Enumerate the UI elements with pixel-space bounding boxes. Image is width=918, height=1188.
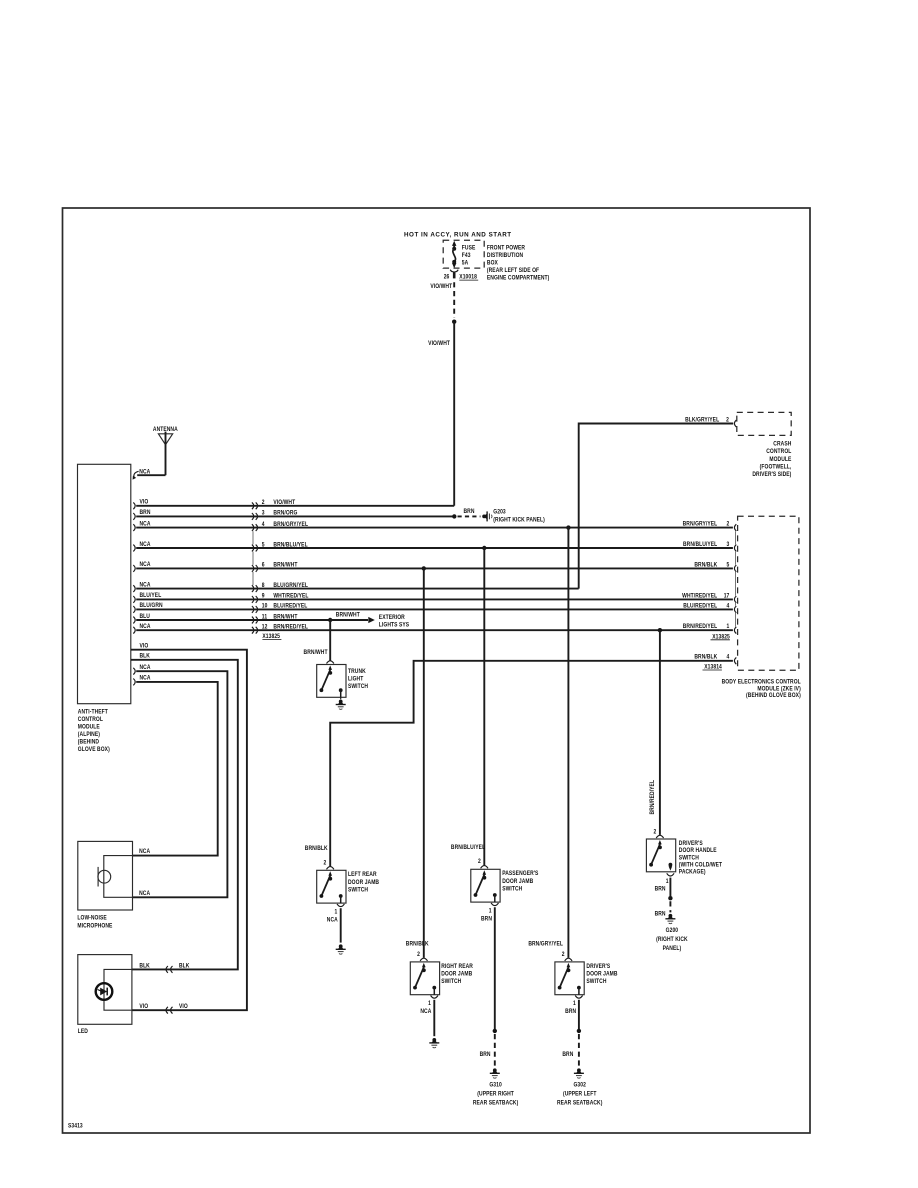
- svg-text:PACKAGE): PACKAGE): [679, 869, 706, 876]
- svg-text:BRN: BRN: [562, 1052, 573, 1059]
- svg-text:BRN: BRN: [463, 509, 474, 516]
- wire NCA to ground (left rear): [340, 908, 342, 942]
- wire BRN down to splice (handle): [668, 878, 672, 901]
- svg-text:9: 9: [262, 593, 265, 600]
- wire label VIO/WHT: [428, 341, 450, 348]
- svg-text:BRN: BRN: [481, 916, 492, 923]
- trunk light switch label: [348, 668, 368, 690]
- ground G200: [665, 914, 675, 924]
- connector label X13825 (right): [711, 634, 731, 641]
- connector pin 1 below passenger switch: [481, 903, 499, 923]
- anti-theft control module box: [78, 464, 131, 703]
- svg-text:(UPPER RIGHT: (UPPER RIGHT: [477, 1091, 514, 1098]
- power feed label: [404, 232, 512, 239]
- connector pin 1 below left rear switch: [327, 904, 345, 924]
- crash control module label: [752, 441, 791, 478]
- svg-text:DOOR JAMB: DOOR JAMB: [502, 878, 533, 885]
- right rear door jamb switch: [410, 958, 439, 995]
- svg-text:HOT IN ACCY, RUN AND START: HOT IN ACCY, RUN AND START: [404, 232, 512, 239]
- driver door jamb switch label: [586, 963, 617, 985]
- sheet number S3413: [68, 1123, 83, 1130]
- wire row pin 5 BRN/BLU/YEL: [133, 541, 733, 551]
- LED label: [78, 1029, 88, 1036]
- ground G203 splice on BRN/ORG row: [452, 509, 480, 519]
- svg-text:(BEHIND: (BEHIND: [78, 739, 99, 746]
- svg-text:BRN/RED/YEL: BRN/RED/YEL: [683, 624, 718, 631]
- connector X10018 pin 26: [444, 270, 478, 281]
- svg-text:BLU/RED/YEL: BLU/RED/YEL: [683, 603, 717, 610]
- wire label BRN/BLK at left rear door jamb switch: [305, 846, 329, 853]
- svg-text:BRN/WHT: BRN/WHT: [273, 614, 297, 621]
- ground label G302: [557, 1082, 603, 1107]
- svg-text:NCA: NCA: [140, 675, 151, 682]
- pin 2 driver door handle switch: [653, 829, 656, 836]
- svg-text:G200: G200: [666, 928, 678, 935]
- microphone wire labels NCA: [139, 848, 150, 897]
- ground label G203: [493, 509, 545, 524]
- svg-text:S3413: S3413: [68, 1123, 83, 1130]
- wire BRN dashed to ground G302: [562, 1034, 579, 1067]
- connector X13825 body ECM pin 5 BRN/BLK: [694, 562, 736, 572]
- svg-text:NCA: NCA: [139, 891, 150, 898]
- svg-text:VIO: VIO: [140, 643, 149, 650]
- svg-text:BLU/GRN: BLU/GRN: [140, 603, 163, 610]
- svg-text:BOX: BOX: [487, 260, 498, 267]
- wire row pin 6 BRN/WHT: [133, 562, 733, 572]
- wire row 11 down to trunk light switch: [329, 620, 331, 661]
- svg-text:FUSE: FUSE: [462, 245, 476, 252]
- svg-text:CONTROL: CONTROL: [78, 717, 103, 724]
- pin 2 right rear door jamb switch: [417, 951, 420, 958]
- svg-text:SWITCH: SWITCH: [348, 887, 368, 894]
- svg-text:MICROPHONE: MICROPHONE: [77, 923, 112, 930]
- fuse F43 5A: [452, 241, 475, 269]
- svg-text:BLU/GRN/YEL: BLU/GRN/YEL: [273, 582, 308, 589]
- svg-text:2: 2: [562, 951, 565, 958]
- left rear door jamb switch label: [348, 872, 379, 894]
- body electronics control module label: [722, 679, 802, 699]
- svg-text:CONTROL: CONTROL: [766, 449, 791, 456]
- pin 2 passenger door jamb switch: [478, 858, 481, 865]
- wire BRN dashed to ground G310: [480, 1034, 495, 1067]
- svg-text:NCA: NCA: [140, 541, 151, 548]
- svg-text:VIO/WHT: VIO/WHT: [428, 341, 450, 348]
- exterior lights sys label: [379, 615, 409, 629]
- svg-text:RIGHT REAR: RIGHT REAR: [441, 963, 473, 970]
- svg-text:DRIVER'S: DRIVER'S: [679, 840, 703, 847]
- wire row pin 12 BRN/RED/YEL: [133, 624, 733, 634]
- wire label BRN/RED/YEL (vertical): [649, 780, 656, 815]
- ground G310: [490, 1068, 500, 1078]
- svg-text:SWITCH: SWITCH: [441, 979, 461, 986]
- svg-text:NCA: NCA: [140, 664, 151, 671]
- node splice row 4 to driver door jamb switch: [566, 525, 570, 957]
- svg-text:SWITCH: SWITCH: [348, 684, 368, 691]
- wire row pin 4 BRN/GRY/YEL: [133, 521, 733, 531]
- connector X13825 body ECM pin 1 BRN/RED/YEL: [683, 624, 737, 634]
- svg-text:NCA: NCA: [140, 624, 151, 631]
- svg-text:NCA: NCA: [139, 469, 150, 476]
- ground (left rear door jamb switch): [336, 944, 346, 954]
- front power distribution box label: [487, 245, 549, 282]
- svg-text:DOOR JAMB: DOOR JAMB: [586, 971, 617, 978]
- svg-text:BLK: BLK: [140, 653, 151, 660]
- pin 2 left rear door jamb switch: [323, 860, 326, 867]
- svg-text:ANTI-THEFT: ANTI-THEFT: [78, 709, 108, 716]
- svg-text:2: 2: [478, 858, 481, 865]
- trunk light switch: [317, 661, 346, 698]
- front power distribution box (dashed): [443, 240, 484, 268]
- wire label VIO/WHT (upper): [430, 283, 452, 290]
- svg-text:PANEL): PANEL): [663, 946, 682, 953]
- wire BRN down to splice (driver jamb): [577, 1000, 581, 1033]
- svg-text:(WITH COLD/WET: (WITH COLD/WET: [679, 862, 723, 869]
- left rear door jamb switch: [317, 867, 346, 904]
- connector label X13814: [703, 664, 723, 671]
- svg-text:G203: G203: [493, 509, 505, 516]
- node splice row 5 to passenger door jamb switch: [482, 546, 486, 865]
- connector pin 1 below driver jamb switch: [565, 996, 582, 1016]
- connector X13825 body ECM pin 4 BLU/RED/YEL: [683, 603, 736, 613]
- svg-text:BLU/RED/YEL: BLU/RED/YEL: [273, 603, 307, 610]
- wire BRN dashed to ground G200: [655, 901, 671, 917]
- connector X13825 body line (right): [735, 531, 737, 626]
- wire row pin 9 WHT/RED/YEL: [133, 593, 733, 603]
- svg-text:BLU/YEL: BLU/YEL: [140, 593, 162, 600]
- svg-text:NCA: NCA: [420, 1009, 431, 1016]
- wire NCA to microphone (lower): [133, 664, 228, 897]
- svg-text:BRN/BLK: BRN/BLK: [694, 562, 718, 569]
- passenger door jamb switch label: [502, 871, 538, 893]
- svg-text:VIO: VIO: [179, 1004, 188, 1011]
- svg-text:3: 3: [727, 541, 730, 548]
- wire VIO to LED: [131, 643, 247, 1010]
- svg-text:BLK: BLK: [179, 963, 190, 970]
- svg-text:BRN: BRN: [655, 911, 666, 918]
- low-noise microphone label: [77, 915, 112, 930]
- anti-theft control module label: [78, 709, 110, 753]
- svg-text:G310: G310: [489, 1082, 501, 1089]
- svg-text:(ALPINE): (ALPINE): [78, 732, 100, 739]
- ground below trunk light switch: [336, 697, 346, 709]
- passenger door jamb switch: [471, 866, 500, 903]
- svg-text:LED: LED: [78, 1029, 88, 1036]
- connector X13825 body ECM pin 3 BRN/BLU/YEL: [683, 541, 736, 551]
- connector X13825 body ECM pin 2 BRN/GRY/YEL: [683, 521, 737, 531]
- ground (right rear door jamb switch): [429, 1038, 439, 1048]
- svg-text:DOOR JAMB: DOOR JAMB: [348, 879, 379, 886]
- svg-text:2: 2: [323, 860, 326, 867]
- svg-text:VIO/WHT: VIO/WHT: [273, 500, 295, 507]
- wire BLK to LED: [131, 653, 238, 969]
- svg-text:DOOR HANDLE: DOOR HANDLE: [679, 848, 717, 855]
- svg-text:BRN: BRN: [480, 1052, 491, 1059]
- connector label X13825 (left): [262, 634, 281, 641]
- ground symbol G203: [482, 511, 492, 521]
- svg-text:5A: 5A: [462, 260, 469, 267]
- connector X13814 body ECM pin 4 BRN/BLK: [694, 654, 736, 664]
- wire BRN down to splice (passenger): [493, 907, 497, 1033]
- wire label BRN/WHT at trunk switch: [304, 649, 328, 656]
- svg-text:26: 26: [444, 274, 450, 281]
- svg-text:BLK: BLK: [139, 963, 150, 970]
- wire NCA to microphone (upper): [133, 675, 218, 855]
- antenna: [153, 427, 178, 475]
- svg-text:BRN/BLU/YEL: BRN/BLU/YEL: [683, 541, 718, 548]
- svg-text:BRN/WHT: BRN/WHT: [304, 649, 328, 656]
- svg-text:MODULE (ZKE IV): MODULE (ZKE IV): [757, 686, 800, 693]
- svg-text:WHT/RED/YEL: WHT/RED/YEL: [273, 593, 308, 600]
- inline connector on VIO wire: [139, 1004, 188, 1014]
- svg-text:DRIVER'S: DRIVER'S: [586, 963, 610, 970]
- svg-text:(REAR LEFT SIDE OF: (REAR LEFT SIDE OF: [487, 268, 540, 275]
- svg-text:SWITCH: SWITCH: [502, 886, 522, 893]
- wire row pin 3 BRN/ORG: [133, 510, 454, 520]
- wire label BRN/BLU/YEL at passenger door jamb switch: [451, 845, 486, 852]
- svg-text:BRN/BLU/YEL: BRN/BLU/YEL: [273, 542, 308, 549]
- svg-text:DOOR JAMB: DOOR JAMB: [441, 971, 472, 978]
- body electronics control module (dashed box): [738, 516, 799, 670]
- wire NCA antenna lead into module: [133, 469, 166, 480]
- wire BRN/BLK to body ECM pin 4 (X13814): [330, 661, 733, 866]
- svg-text:LIGHTS SYS: LIGHTS SYS: [379, 622, 409, 629]
- svg-text:EXTERIOR: EXTERIOR: [379, 615, 406, 622]
- svg-text:NCA: NCA: [140, 562, 151, 569]
- svg-text:11: 11: [262, 614, 268, 621]
- ground label G310: [473, 1082, 519, 1107]
- svg-text:FRONT POWER: FRONT POWER: [487, 245, 526, 252]
- svg-text:SWITCH: SWITCH: [679, 855, 699, 862]
- svg-text:LOW-NOISE: LOW-NOISE: [77, 915, 106, 922]
- LED box: [78, 955, 132, 1025]
- inline connector on BLK wire: [139, 963, 190, 973]
- connector pin 1 below right rear switch: [420, 996, 438, 1016]
- ground G302: [574, 1068, 584, 1078]
- svg-text:ENGINE COMPARTMENT): ENGINE COMPARTMENT): [487, 275, 549, 282]
- wire VIO/WHT from fuse (dashed at top): [452, 282, 456, 324]
- svg-text:REAR SEATBACK): REAR SEATBACK): [473, 1100, 519, 1107]
- svg-text:BRN/RED/YEL: BRN/RED/YEL: [649, 780, 656, 815]
- wire row pin 11 BRN/WHT: [133, 613, 330, 623]
- svg-text:NCA: NCA: [139, 848, 150, 855]
- svg-text:BRN/RED/YEL: BRN/RED/YEL: [273, 624, 308, 631]
- svg-text:BRN/WHT: BRN/WHT: [273, 562, 297, 569]
- svg-text:MODULE: MODULE: [78, 724, 100, 731]
- svg-text:LIGHT: LIGHT: [348, 676, 364, 683]
- microphone symbol: [98, 856, 133, 898]
- svg-text:BRN/GRY/YEL: BRN/GRY/YEL: [273, 521, 308, 528]
- crash control module (dashed box): [737, 412, 791, 435]
- right rear door jamb switch label: [441, 963, 473, 985]
- svg-text:2: 2: [417, 951, 420, 958]
- svg-text:BRN/ORG: BRN/ORG: [273, 510, 297, 517]
- driver door handle switch: [646, 835, 675, 872]
- wire row pin 10 BLU/RED/YEL: [133, 603, 733, 613]
- svg-text:BRN/BLK: BRN/BLK: [406, 941, 430, 948]
- low-noise microphone box: [78, 841, 133, 910]
- svg-text:NCA: NCA: [327, 917, 338, 924]
- connector X13825 body line (left): [252, 531, 254, 585]
- svg-text:LEFT REAR: LEFT REAR: [348, 872, 377, 879]
- svg-text:(BEHIND GLOVE BOX): (BEHIND GLOVE BOX): [746, 693, 801, 700]
- svg-text:2: 2: [653, 829, 656, 836]
- wire label BRN/BLK at right rear door jamb switch: [406, 941, 430, 948]
- connector pin 1 below handle switch: [655, 873, 675, 892]
- wire NCA to ground (right rear): [433, 1000, 435, 1036]
- svg-text:PASSENGER'S: PASSENGER'S: [502, 871, 538, 878]
- svg-text:VIO: VIO: [140, 499, 149, 506]
- svg-text:DRIVER'S SIDE): DRIVER'S SIDE): [752, 472, 791, 479]
- svg-text:2: 2: [726, 417, 729, 424]
- svg-text:TRUNK: TRUNK: [348, 668, 366, 675]
- svg-text:2: 2: [262, 500, 265, 507]
- svg-text:MODULE: MODULE: [769, 456, 791, 463]
- node splice row 12 to driver door handle switch: [658, 628, 662, 835]
- svg-text:3: 3: [262, 510, 265, 517]
- svg-text:12: 12: [262, 624, 268, 631]
- driver door handle switch label: [679, 840, 723, 875]
- wire row pin 8 BLU/GRN/YEL: [133, 582, 578, 592]
- svg-text:17: 17: [724, 593, 730, 600]
- svg-text:VIO/WHT: VIO/WHT: [430, 283, 452, 290]
- svg-text:BRN/GRY/YEL: BRN/GRY/YEL: [528, 941, 563, 948]
- node splice row 6 to right rear door jamb switch: [422, 566, 426, 958]
- svg-text:NCA: NCA: [140, 521, 151, 528]
- wire row pin 2 VIO/WHT: [133, 499, 454, 509]
- svg-text:BLU: BLU: [140, 613, 150, 620]
- svg-text:DISTRIBUTION: DISTRIBUTION: [487, 252, 523, 259]
- driver door jamb switch: [555, 958, 584, 995]
- svg-text:G302: G302: [573, 1082, 585, 1089]
- svg-text:F43: F43: [462, 253, 471, 260]
- svg-text:8: 8: [262, 582, 265, 589]
- wire row 8 up to crash control module: [579, 424, 734, 589]
- ground label G200: [656, 928, 688, 953]
- svg-text:(RIGHT KICK PANEL): (RIGHT KICK PANEL): [493, 517, 545, 524]
- svg-text:WHT/RED/YEL: WHT/RED/YEL: [682, 593, 717, 600]
- LED symbol: [96, 969, 132, 1010]
- svg-text:(FOOTWELL,: (FOOTWELL,: [760, 464, 792, 471]
- svg-text:NCA: NCA: [140, 582, 151, 589]
- svg-text:2: 2: [727, 521, 730, 528]
- wire label BRN/GRY/YEL at driver door jamb switch: [528, 941, 563, 948]
- svg-text:6: 6: [262, 562, 265, 569]
- svg-text:BRN: BRN: [140, 510, 151, 517]
- svg-text:BRN/BLK: BRN/BLK: [305, 846, 329, 853]
- svg-text:VIO: VIO: [139, 1004, 148, 1011]
- svg-text:BRN/WHT: BRN/WHT: [336, 612, 360, 619]
- svg-text:SWITCH: SWITCH: [586, 979, 606, 986]
- svg-text:BRN/BLU/YEL: BRN/BLU/YEL: [451, 845, 486, 852]
- svg-text:BRN/BLK: BRN/BLK: [694, 654, 718, 661]
- svg-text:BRN: BRN: [655, 886, 666, 893]
- svg-text:REAR SEATBACK): REAR SEATBACK): [557, 1100, 603, 1107]
- splice to exterior lights sys: [328, 612, 375, 623]
- pin 2 driver door jamb switch: [562, 951, 565, 958]
- connector crash module pin 2 BLK/GRY/YEL: [685, 417, 736, 427]
- svg-text:(UPPER LEFT: (UPPER LEFT: [563, 1091, 597, 1098]
- svg-text:(RIGHT KICK: (RIGHT KICK: [656, 937, 688, 944]
- svg-text:BRN/GRY/YEL: BRN/GRY/YEL: [683, 521, 718, 528]
- svg-text:BODY ELECTRONICS CONTROL: BODY ELECTRONICS CONTROL: [722, 679, 802, 686]
- svg-text:BRN: BRN: [565, 1009, 576, 1016]
- svg-text:CRASH: CRASH: [773, 441, 791, 448]
- svg-text:BLK/GRY/YEL: BLK/GRY/YEL: [685, 417, 719, 424]
- svg-text:GLOVE BOX): GLOVE BOX): [78, 747, 110, 754]
- connector X13825 body ECM pin 17 WHT/RED/YEL: [682, 593, 736, 603]
- svg-text:10: 10: [262, 603, 268, 610]
- wire VIO/WHT vertical down to pin 2 row: [453, 322, 455, 506]
- border frame: [63, 208, 811, 1133]
